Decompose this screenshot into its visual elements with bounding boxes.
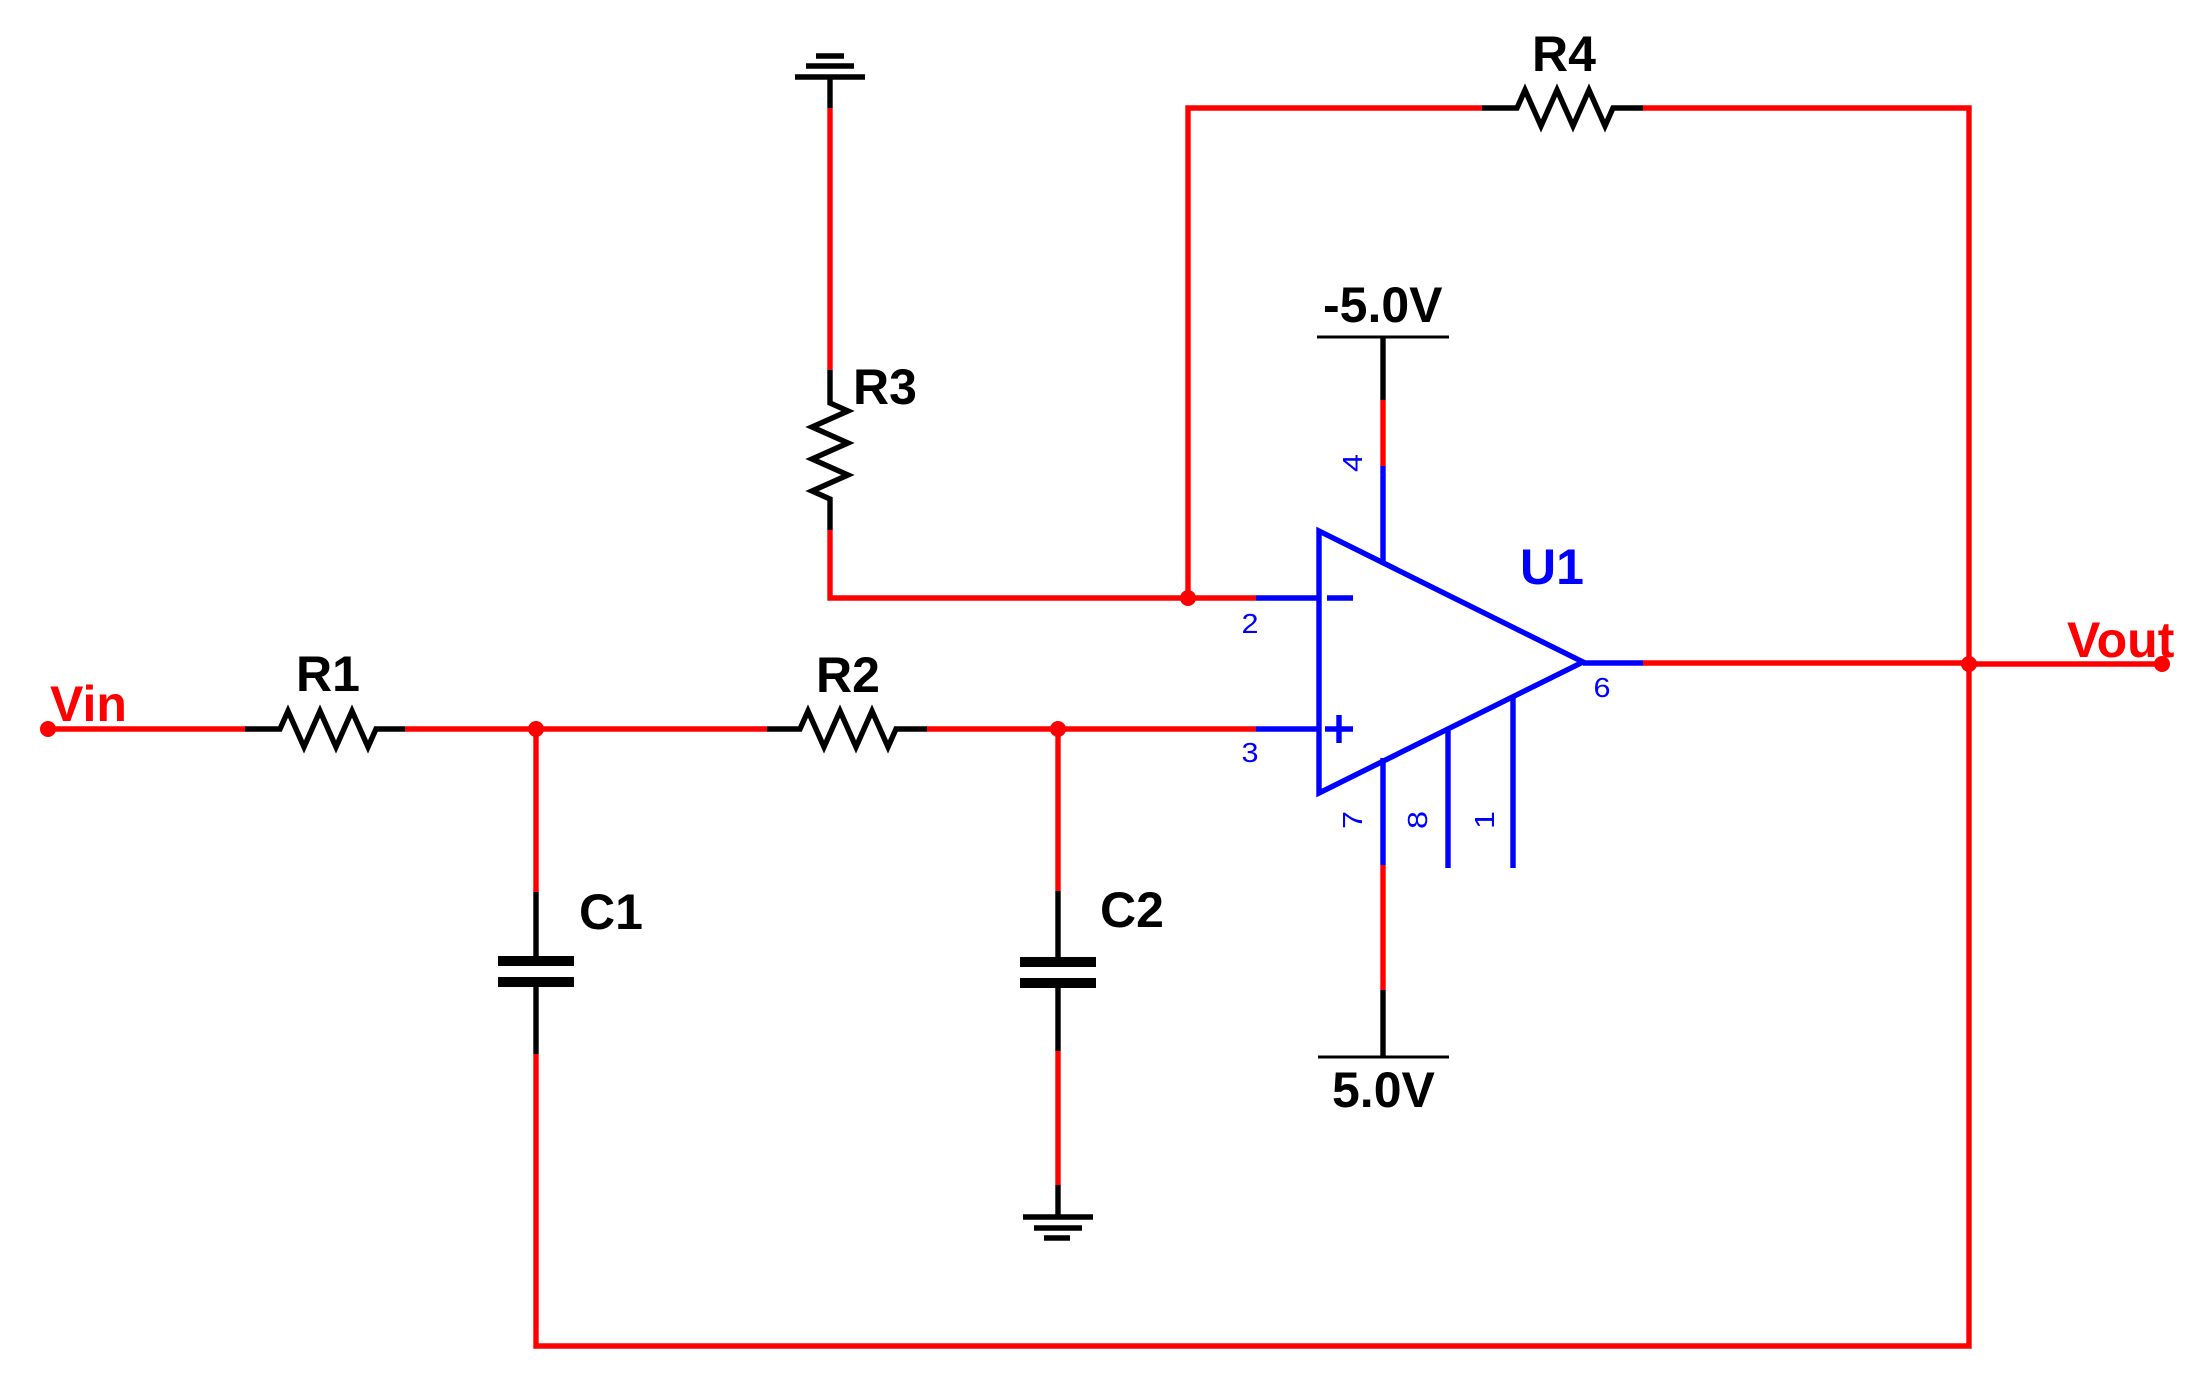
- wire R2 to node B: [927, 726, 1058, 731]
- op-amp pin 4 stub: [1380, 466, 1385, 564]
- wire node C to op-amp pin 2: [1188, 595, 1256, 600]
- svg-text:4: 4: [1337, 454, 1368, 472]
- supply 5.0V stem: [1380, 990, 1385, 1057]
- svg-text:R1: R1: [296, 646, 360, 702]
- capacitor C2: [1020, 891, 1096, 1051]
- node Vout junction dot: [1961, 656, 1977, 672]
- op-amp pin 1 stub: [1510, 697, 1515, 868]
- op-amp pin 7 stub: [1380, 758, 1385, 865]
- wire node B to op-amp pin 3: [1058, 726, 1256, 731]
- wire node A down to C1: [533, 729, 538, 892]
- wire Vin to R1: [48, 726, 245, 731]
- op-amp non-inverting input marker (plus): [1325, 715, 1353, 743]
- wire 5.0V supply to pin 7 (red segment): [1380, 865, 1385, 990]
- svg-text:Vin: Vin: [50, 676, 127, 732]
- wire -5.0V supply to pin 4 (red segment): [1380, 400, 1385, 466]
- wire R3 to node C: [830, 530, 1188, 598]
- resistor R1: [245, 711, 405, 747]
- node B junction dot: [1050, 721, 1066, 737]
- svg-text:7: 7: [1337, 811, 1368, 829]
- svg-text:3: 3: [1242, 737, 1259, 768]
- wire C1 bottom rail to Vout node: [536, 666, 1969, 1346]
- svg-text:R2: R2: [816, 647, 880, 703]
- svg-text:C1: C1: [579, 884, 643, 940]
- node C junction dot: [1180, 590, 1196, 606]
- op-amp pin 8 stub: [1445, 729, 1450, 868]
- svg-text:Vout: Vout: [2067, 612, 2175, 668]
- svg-text:2: 2: [1242, 608, 1259, 639]
- resistor R2: [767, 711, 927, 747]
- wire node B down to C2: [1055, 729, 1060, 891]
- svg-text:5.0V: 5.0V: [1332, 1062, 1436, 1118]
- op-amp inverting input marker (minus): [1327, 595, 1353, 600]
- ground (bottom, below C2): [1023, 1185, 1093, 1238]
- svg-text:C2: C2: [1100, 882, 1164, 938]
- wire node A to R2: [536, 726, 767, 731]
- svg-text:8: 8: [1402, 811, 1433, 829]
- wire Vout node to terminal: [1969, 661, 2162, 666]
- capacitor C1: [498, 892, 574, 1054]
- svg-text:R4: R4: [1532, 26, 1596, 82]
- wire R1 to node A: [405, 726, 536, 731]
- wire C2 to ground: [1055, 1051, 1060, 1185]
- supply -5.0V stem: [1380, 337, 1385, 400]
- svg-text:1: 1: [1469, 811, 1500, 829]
- node Vout terminal dot: [2154, 656, 2170, 672]
- node Vin terminal dot: [40, 721, 56, 737]
- wire ground to R3: [827, 108, 832, 370]
- ground (top, above R3): [795, 56, 865, 108]
- svg-text:-5.0V: -5.0V: [1323, 277, 1443, 333]
- op-amp U1 triangle: [1319, 531, 1583, 793]
- wire op-amp output to Vout node: [1643, 660, 1969, 665]
- svg-text:R3: R3: [853, 359, 917, 415]
- op-amp pin 6 output stub: [1583, 660, 1643, 665]
- supply -5.0V bar: [1317, 336, 1449, 339]
- resistor R4: [1482, 90, 1643, 126]
- op-amp pin 2 stub: [1256, 595, 1319, 600]
- svg-text:6: 6: [1594, 672, 1611, 703]
- node A junction dot: [528, 721, 544, 737]
- wire node C up to R4 (feedback): [1188, 108, 1482, 598]
- op-amp pin 3 stub: [1256, 726, 1319, 731]
- supply 5.0V bar: [1318, 1056, 1449, 1059]
- svg-text:U1: U1: [1520, 539, 1584, 595]
- resistor R3: [812, 370, 848, 530]
- wire R4 to right rail: [1643, 108, 1969, 666]
